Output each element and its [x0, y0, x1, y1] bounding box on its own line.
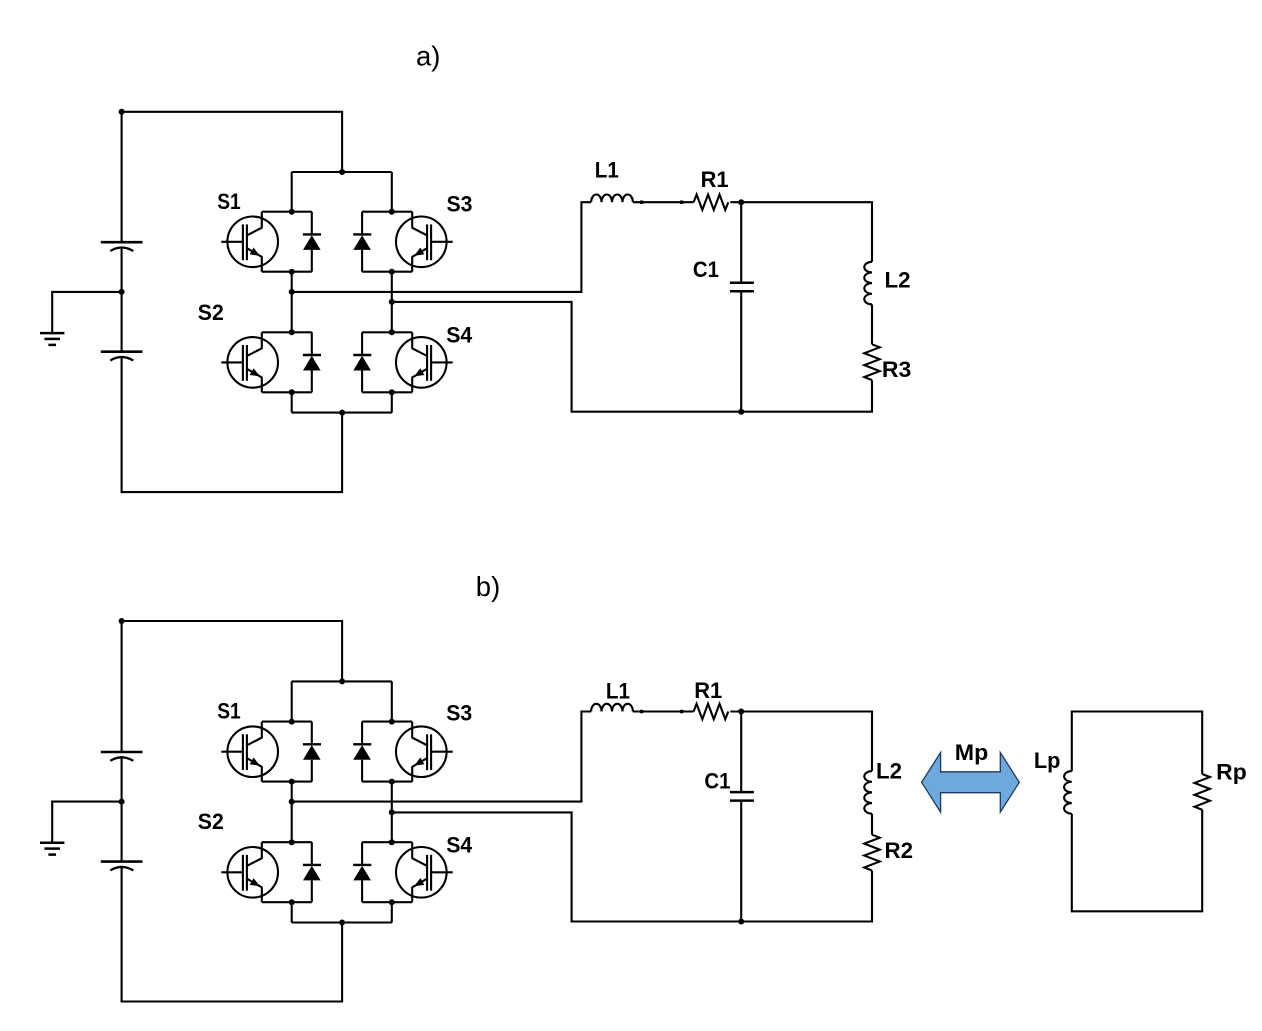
- svg-text:C1: C1: [693, 257, 719, 282]
- svg-text:C1: C1: [704, 768, 730, 793]
- svg-text:R2: R2: [885, 838, 914, 863]
- svg-text:a): a): [416, 41, 440, 72]
- svg-text:S2: S2: [198, 300, 224, 325]
- svg-text:L2: L2: [876, 759, 902, 784]
- svg-text:R3: R3: [882, 357, 912, 382]
- svg-text:S1: S1: [217, 189, 241, 214]
- svg-text:S3: S3: [446, 700, 472, 725]
- svg-text:S4: S4: [446, 322, 472, 347]
- svg-text:b): b): [476, 571, 500, 602]
- svg-text:S4: S4: [446, 833, 472, 858]
- svg-text:L2: L2: [885, 267, 911, 292]
- svg-text:L1: L1: [606, 678, 630, 703]
- svg-text:Lp: Lp: [1034, 748, 1061, 773]
- svg-text:Mp: Mp: [955, 740, 989, 765]
- svg-text:L1: L1: [595, 157, 619, 182]
- svg-text:Rp: Rp: [1216, 760, 1247, 785]
- svg-text:S2: S2: [198, 809, 224, 834]
- svg-text:S1: S1: [217, 698, 241, 723]
- svg-text:R1: R1: [694, 678, 722, 703]
- svg-text:S3: S3: [447, 192, 473, 217]
- svg-text:R1: R1: [701, 167, 729, 192]
